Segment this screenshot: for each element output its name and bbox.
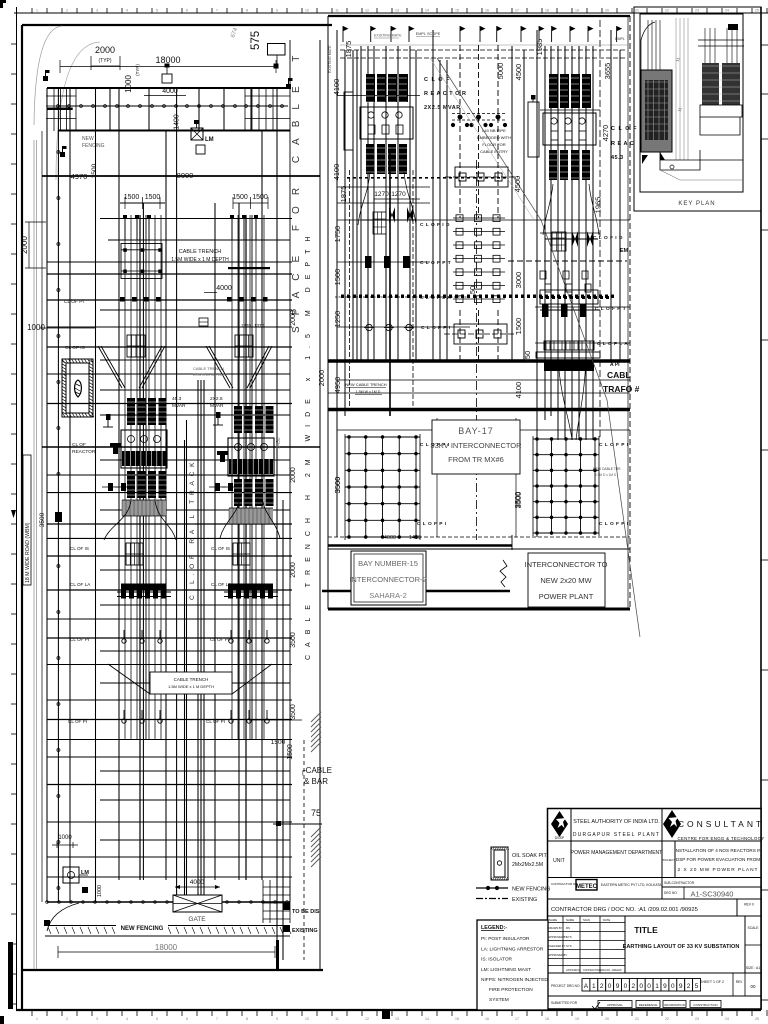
svg-text:3500: 3500 bbox=[333, 477, 342, 494]
svg-text:A: A bbox=[584, 983, 589, 990]
svg-text:1370: 1370 bbox=[241, 323, 252, 328]
svg-text:45.3: 45.3 bbox=[611, 155, 624, 161]
svg-text:APPROVAL: APPROVAL bbox=[607, 1003, 623, 1007]
svg-text:1500: 1500 bbox=[124, 194, 140, 201]
svg-text:21: 21 bbox=[635, 9, 639, 13]
svg-text:9: 9 bbox=[276, 9, 278, 13]
svg-text:BAY-17: BAY-17 bbox=[458, 426, 494, 436]
svg-text:CL OF IS: CL OF IS bbox=[70, 546, 89, 551]
svg-text:0: 0 bbox=[639, 983, 643, 990]
svg-text:IS: ISOLATOR: IS: ISOLATOR bbox=[481, 957, 513, 963]
svg-text:R E A C: R E A C bbox=[611, 141, 634, 147]
svg-text:3: 3 bbox=[96, 1017, 98, 1021]
svg-text:1: 1 bbox=[36, 1017, 38, 1021]
svg-text:FIRE PROTECTION: FIRE PROTECTION bbox=[489, 987, 533, 993]
svg-text:C L O F P I: C L O F P I bbox=[599, 442, 629, 448]
svg-text:1.5M D x 1M D: 1.5M D x 1M D bbox=[595, 473, 617, 477]
svg-text:CL OF PI: CL OF PI bbox=[210, 637, 229, 642]
svg-text:1: 1 bbox=[592, 983, 596, 990]
svg-text:8000: 8000 bbox=[177, 171, 194, 180]
svg-text:CL OF LA: CL OF LA bbox=[211, 582, 232, 587]
svg-text:10: 10 bbox=[305, 9, 309, 13]
svg-text:EXISTING: EXISTING bbox=[292, 928, 318, 934]
svg-text:7: 7 bbox=[216, 9, 218, 13]
svg-text:13: 13 bbox=[395, 9, 399, 13]
svg-text:75: 75 bbox=[311, 808, 321, 818]
svg-text:8: 8 bbox=[246, 1017, 248, 1021]
svg-text:EXISTING: EXISTING bbox=[512, 897, 537, 903]
svg-text:FENCING: FENCING bbox=[82, 143, 105, 149]
svg-text:CONTRACTOR DRG NO...AREA/W: CONTRACTOR DRG NO...AREA/W bbox=[583, 969, 622, 972]
svg-text:SYS: SYS bbox=[566, 944, 572, 948]
svg-text:NEW FENCING: NEW FENCING bbox=[121, 926, 164, 932]
svg-text:CONTRACTOR NO: CONTRACTOR NO bbox=[551, 882, 578, 886]
svg-text:4100: 4100 bbox=[332, 164, 341, 181]
svg-text:BAY NUMBER-15: BAY NUMBER-15 bbox=[358, 559, 418, 568]
svg-text:6: 6 bbox=[186, 1017, 188, 1021]
svg-text:1875: 1875 bbox=[339, 186, 348, 203]
svg-text:25: 25 bbox=[755, 1017, 759, 1021]
svg-text:750: 750 bbox=[523, 351, 532, 364]
svg-text:1.5M W x 1M D: 1.5M W x 1M D bbox=[356, 390, 381, 394]
svg-text:4: 4 bbox=[126, 9, 128, 13]
svg-text:14: 14 bbox=[425, 9, 429, 13]
svg-text:EM: EM bbox=[620, 248, 629, 254]
svg-text:18 M WIDE ROAD (WBM): 18 M WIDE ROAD (WBM) bbox=[25, 522, 31, 583]
svg-text:1500: 1500 bbox=[252, 194, 268, 201]
svg-text:20: 20 bbox=[605, 9, 609, 13]
svg-text:8: 8 bbox=[246, 9, 248, 13]
svg-text:C L O F P I: C L O F P I bbox=[421, 325, 451, 331]
svg-text:LM: LM bbox=[205, 137, 214, 143]
svg-text:4000: 4000 bbox=[216, 285, 232, 292]
svg-text:3655: 3655 bbox=[603, 63, 612, 80]
svg-text:NAME: NAME bbox=[549, 918, 557, 922]
svg-text:C L O F P T: C L O F P T bbox=[420, 260, 451, 266]
svg-text:4: 4 bbox=[126, 1017, 128, 1021]
svg-text:3: 3 bbox=[96, 9, 98, 13]
svg-text:C L O F P I: C L O F P I bbox=[599, 521, 629, 527]
svg-text:DURGAPUR STEEL PLANT: DURGAPUR STEEL PLANT bbox=[573, 832, 660, 838]
svg-text:GATE: GATE bbox=[188, 916, 206, 923]
svg-text:REV 0: REV 0 bbox=[744, 903, 754, 907]
svg-text:2000: 2000 bbox=[95, 45, 115, 55]
svg-text:9: 9 bbox=[616, 983, 620, 990]
svg-text:REFERENCE: REFERENCE bbox=[639, 1003, 658, 1007]
svg-text:STEEL AUTHORITY OF INDIA LTD.: STEEL AUTHORITY OF INDIA LTD. bbox=[573, 819, 659, 825]
svg-text:NEW FENCING: NEW FENCING bbox=[512, 887, 550, 893]
svg-text:(TYP): (TYP) bbox=[98, 58, 111, 64]
svg-text:L40 NB PIPE: L40 NB PIPE bbox=[482, 128, 506, 133]
svg-text:2Mx2Mx2.5M: 2Mx2Mx2.5M bbox=[512, 862, 543, 868]
svg-text:18: 18 bbox=[545, 1017, 549, 1021]
svg-text:MVAR: MVAR bbox=[210, 403, 224, 409]
svg-text:1: 1 bbox=[655, 983, 659, 990]
svg-text:C L O F P I: C L O F P I bbox=[417, 521, 447, 527]
svg-text:16: 16 bbox=[485, 9, 489, 13]
svg-text:2X2.5: 2X2.5 bbox=[210, 396, 223, 402]
svg-text:10: 10 bbox=[305, 1017, 309, 1021]
svg-text:1000: 1000 bbox=[27, 323, 45, 332]
svg-text:EMPL: EMPL bbox=[615, 37, 625, 41]
svg-text:KEY PLAN: KEY PLAN bbox=[678, 201, 715, 207]
svg-text:14: 14 bbox=[425, 1017, 429, 1021]
svg-text:SYS: SYS bbox=[566, 935, 572, 939]
svg-text:9: 9 bbox=[663, 983, 667, 990]
svg-text:1965: 1965 bbox=[594, 197, 603, 214]
svg-text:1000: 1000 bbox=[124, 75, 133, 93]
svg-text:METEC: METEC bbox=[576, 884, 598, 890]
svg-text:PROJECT: PROJECT bbox=[661, 858, 675, 862]
svg-text:1875: 1875 bbox=[344, 41, 353, 58]
svg-text:19: 19 bbox=[575, 1017, 579, 1021]
svg-text:LM: LM bbox=[81, 870, 89, 876]
svg-text:1500: 1500 bbox=[514, 318, 523, 335]
svg-text:18: 18 bbox=[545, 9, 549, 13]
svg-text:50: 50 bbox=[468, 286, 477, 294]
svg-text:TITLE: TITLE bbox=[634, 925, 658, 935]
svg-text:PI: POST INSULATOR: PI: POST INSULATOR bbox=[481, 936, 530, 942]
svg-text:DRAWN BY: DRAWN BY bbox=[549, 926, 563, 930]
svg-text:5000: 5000 bbox=[496, 63, 505, 80]
svg-text:3500: 3500 bbox=[290, 704, 297, 720]
svg-text:CL OF PI: CL OF PI bbox=[64, 299, 84, 305]
svg-text:C L O F P T: C L O F P T bbox=[595, 306, 626, 312]
svg-text:2000: 2000 bbox=[290, 310, 297, 326]
svg-text:EMPL SCOPE: EMPL SCOPE bbox=[416, 32, 441, 36]
svg-text:SUB-CONTRACTOR: SUB-CONTRACTOR bbox=[664, 881, 695, 885]
svg-text:CL OF IS: CL OF IS bbox=[211, 546, 230, 551]
svg-text:0: 0 bbox=[647, 983, 651, 990]
svg-text:MVAR: MVAR bbox=[172, 403, 186, 409]
svg-text:SIZE : A1: SIZE : A1 bbox=[746, 966, 760, 970]
svg-text:4000: 4000 bbox=[162, 88, 178, 95]
svg-text:1250: 1250 bbox=[333, 311, 342, 328]
svg-text:UNIT: UNIT bbox=[553, 858, 565, 864]
svg-text:CABLE TRENCH: CABLE TRENCH bbox=[179, 249, 221, 255]
svg-text:CONSTRUCTION: CONSTRUCTION bbox=[693, 1003, 717, 1007]
svg-text:EXISTING 300 WIDE: EXISTING 300 WIDE bbox=[193, 373, 228, 377]
svg-text:6: 6 bbox=[186, 9, 188, 13]
svg-text:EASTERN METEC PVT LTD, KOLKATA: EASTERN METEC PVT LTD, KOLKATA bbox=[601, 883, 662, 887]
svg-text:POWER MANAGEMENT DEPARTMENT: POWER MANAGEMENT DEPARTMENT bbox=[571, 850, 662, 856]
svg-text:4500: 4500 bbox=[513, 176, 522, 193]
svg-text:0: 0 bbox=[608, 983, 612, 990]
svg-text:NEW CABLE TRENCH: NEW CABLE TRENCH bbox=[345, 382, 386, 387]
svg-text:1500: 1500 bbox=[232, 194, 248, 201]
svg-text:POWER PLANT: POWER PLANT bbox=[539, 592, 594, 601]
svg-text:NAME: NAME bbox=[566, 918, 574, 922]
svg-text:20: 20 bbox=[605, 1017, 609, 1021]
svg-text:5: 5 bbox=[156, 1017, 158, 1021]
svg-text:2: 2 bbox=[600, 983, 604, 990]
svg-text:4000: 4000 bbox=[190, 879, 205, 886]
svg-text:4270: 4270 bbox=[601, 125, 610, 142]
svg-text:23: 23 bbox=[695, 9, 699, 13]
svg-text:2: 2 bbox=[687, 983, 691, 990]
svg-text:TO BE DIS: TO BE DIS bbox=[292, 909, 320, 915]
svg-text:4500: 4500 bbox=[514, 64, 523, 81]
svg-text:A PI: A PI bbox=[610, 362, 620, 368]
svg-text:EXISTING MATE: EXISTING MATE bbox=[328, 45, 332, 73]
svg-text:19: 19 bbox=[575, 9, 579, 13]
svg-text:EXISTING MATE: EXISTING MATE bbox=[374, 34, 402, 38]
svg-text:REACTOR: REACTOR bbox=[72, 449, 96, 455]
svg-text:9: 9 bbox=[679, 983, 683, 990]
svg-text:1500: 1500 bbox=[145, 194, 161, 201]
svg-text:SIGN: SIGN bbox=[583, 918, 590, 922]
svg-text:LM: LIGHTNING MAST: LM: LIGHTNING MAST bbox=[481, 967, 531, 973]
svg-text:1500: 1500 bbox=[333, 269, 342, 286]
svg-text:2000: 2000 bbox=[20, 236, 29, 254]
svg-text:25: 25 bbox=[755, 9, 759, 13]
svg-text:NIFPS: NITROGEN INJECTED: NIFPS: NITROGEN INJECTED bbox=[481, 977, 548, 983]
svg-text:DSP FOR POWER EVACUATION FROM: DSP FOR POWER EVACUATION FROM bbox=[676, 857, 760, 862]
svg-text:PROJECT DRG NO.: PROJECT DRG NO. bbox=[551, 984, 580, 988]
svg-text:C L O F P I: C L O F P I bbox=[420, 442, 450, 448]
svg-text:A1-SC30940: A1-SC30940 bbox=[691, 890, 734, 899]
svg-text:CABL: CABL bbox=[607, 370, 631, 380]
svg-text:2: 2 bbox=[66, 1017, 68, 1021]
svg-text:OIL SOAK PIT: OIL SOAK PIT bbox=[512, 853, 548, 859]
svg-text:INTERCONNECTOR TO: INTERCONNECTOR TO bbox=[525, 560, 608, 569]
svg-text:1270: 1270 bbox=[374, 191, 389, 198]
svg-text:NEW: NEW bbox=[82, 136, 94, 142]
svg-text:2000: 2000 bbox=[290, 467, 297, 483]
svg-text:2000: 2000 bbox=[290, 562, 297, 578]
svg-text:CL OF LA: CL OF LA bbox=[70, 582, 91, 587]
svg-text:1500: 1500 bbox=[271, 739, 286, 746]
svg-text:FROM TR MX#6: FROM TR MX#6 bbox=[448, 455, 504, 464]
svg-text:ANT/2409 M: ANT/2409 M bbox=[566, 968, 581, 972]
svg-text:11: 11 bbox=[335, 9, 339, 13]
svg-text:CABLE TRENCH H 2M WIDE x 1.5 M: CABLE TRENCH H 2M WIDE x 1.5 M DEPTH bbox=[305, 229, 312, 660]
svg-text:DSSP: DSSP bbox=[555, 836, 565, 840]
svg-text:12: 12 bbox=[365, 1017, 369, 1021]
svg-text:C L O F I D: C L O F I D bbox=[593, 235, 623, 241]
svg-text:DATE: DATE bbox=[603, 918, 610, 922]
svg-text:3500: 3500 bbox=[513, 492, 522, 509]
svg-text:(TYP): (TYP) bbox=[135, 64, 140, 76]
svg-text:CL OF PI: CL OF PI bbox=[206, 719, 225, 724]
svg-text:15: 15 bbox=[455, 1017, 459, 1021]
svg-text:CONSULTANT: CONSULTANT bbox=[678, 819, 764, 829]
svg-text:3500: 3500 bbox=[91, 163, 98, 178]
svg-text:CL OF: CL OF bbox=[72, 442, 86, 448]
svg-text:RS: RS bbox=[566, 926, 570, 930]
svg-text:EARTHING LAYOUT OF 33 KV SUBST: EARTHING LAYOUT OF 33 KV SUBSTATION bbox=[623, 944, 740, 950]
svg-text:CONTRACTOR DRG / DOC NO. :A1 /: CONTRACTOR DRG / DOC NO. :A1 /209.02.001… bbox=[551, 907, 698, 913]
svg-text:12: 12 bbox=[365, 9, 369, 13]
svg-text:4000: 4000 bbox=[384, 535, 396, 541]
svg-text:C L O F: C L O F bbox=[611, 126, 637, 132]
svg-text:INFORMATION: INFORMATION bbox=[664, 1003, 685, 1007]
svg-text:2: 2 bbox=[66, 9, 68, 13]
svg-text:┌CABLE: ┌CABLE bbox=[300, 766, 332, 776]
svg-text:TRAFO #: TRAFO # bbox=[603, 384, 640, 394]
svg-text:1985: 1985 bbox=[535, 39, 544, 56]
svg-text:CABLE TRENCH: CABLE TRENCH bbox=[193, 366, 224, 371]
svg-text:1270: 1270 bbox=[391, 191, 406, 198]
svg-text:SHEET 1 OF 2: SHEET 1 OF 2 bbox=[700, 980, 724, 984]
svg-text:4100: 4100 bbox=[514, 382, 523, 399]
svg-text:& BAR: & BAR bbox=[304, 777, 328, 786]
svg-text:3000: 3000 bbox=[514, 272, 523, 289]
svg-text:45.3: 45.3 bbox=[172, 396, 182, 402]
svg-text:CL OF PI: CL OF PI bbox=[70, 637, 89, 642]
svg-text:5: 5 bbox=[695, 983, 699, 990]
svg-text:24: 24 bbox=[725, 9, 729, 13]
svg-text:575: 575 bbox=[250, 31, 262, 50]
svg-text:2 X 20 MW POWER PLANT: 2 X 20 MW POWER PLANT bbox=[678, 867, 759, 873]
svg-text:5: 5 bbox=[156, 9, 158, 13]
svg-text:APPROVED BY: APPROVED BY bbox=[549, 953, 568, 957]
svg-text:1400: 1400 bbox=[174, 114, 181, 130]
svg-text:4100: 4100 bbox=[332, 79, 341, 96]
svg-text:17: 17 bbox=[515, 9, 519, 13]
svg-text:7: 7 bbox=[216, 1017, 218, 1021]
svg-text:15: 15 bbox=[455, 9, 459, 13]
svg-text:0: 0 bbox=[624, 983, 628, 990]
svg-text:18000: 18000 bbox=[155, 55, 180, 65]
svg-text:1.5M WIDE x 1 M DEPTH: 1.5M WIDE x 1 M DEPTH bbox=[168, 684, 214, 689]
svg-text:1000: 1000 bbox=[97, 885, 103, 897]
svg-text:SYSTEM: SYSTEM bbox=[489, 997, 509, 1003]
svg-text:CENTRE FOR ENGG & TECHNOLOGY: CENTRE FOR ENGG & TECHNOLOGY bbox=[677, 836, 764, 841]
svg-text:NEW 2x20 MW: NEW 2x20 MW bbox=[540, 576, 592, 585]
svg-text:1: 1 bbox=[36, 9, 38, 13]
svg-text:SUBMITTED FOR: SUBMITTED FOR bbox=[551, 1001, 578, 1005]
svg-text:CABLE ENTRY: CABLE ENTRY bbox=[480, 149, 508, 154]
svg-text:1000: 1000 bbox=[58, 835, 72, 841]
svg-text:CL OF PI: CL OF PI bbox=[68, 719, 87, 724]
svg-text:NEW CABLE TRE: NEW CABLE TRE bbox=[593, 467, 621, 471]
svg-text:C L O F L A: C L O F L A bbox=[420, 295, 451, 301]
svg-text:22: 22 bbox=[665, 9, 669, 13]
svg-text:SPACE FOR CABLE T: SPACE FOR CABLE T bbox=[291, 45, 302, 333]
svg-text:C L O F L A: C L O F L A bbox=[597, 341, 628, 347]
svg-text:2: 2 bbox=[631, 983, 635, 990]
svg-text:4950: 4950 bbox=[333, 377, 342, 394]
svg-text:1750: 1750 bbox=[333, 226, 342, 243]
svg-text:11: 11 bbox=[335, 1017, 339, 1021]
svg-text:18000: 18000 bbox=[155, 943, 178, 952]
svg-text:1500: 1500 bbox=[287, 744, 294, 760]
svg-text:C.L.OF RAIL TRACK: C.L.OF RAIL TRACK bbox=[189, 458, 196, 600]
svg-text:INTERCONNECTOR-2: INTERCONNECTOR-2 bbox=[349, 575, 426, 584]
svg-text:0: 0 bbox=[671, 983, 675, 990]
svg-text:3450: 3450 bbox=[276, 437, 282, 448]
svg-text:CABLE TRENCH: CABLE TRENCH bbox=[174, 677, 209, 682]
svg-text:16: 16 bbox=[485, 1017, 489, 1021]
svg-text:17: 17 bbox=[515, 1017, 519, 1021]
svg-text:4970: 4970 bbox=[71, 172, 88, 181]
svg-text:1.5M WIDE x 1 M DEPTH: 1.5M WIDE x 1 M DEPTH bbox=[171, 257, 229, 263]
svg-text:LA: LIGHTNING ARRESTOR: LA: LIGHTNING ARRESTOR bbox=[481, 946, 544, 952]
svg-text:C L O F: C L O F bbox=[424, 77, 450, 83]
svg-text:CHECKED BY: CHECKED BY bbox=[549, 944, 566, 948]
svg-text:APPROVED BY: APPROVED BY bbox=[549, 935, 568, 939]
svg-text:3500: 3500 bbox=[290, 632, 297, 648]
svg-text:SAHARA-2: SAHARA-2 bbox=[369, 591, 407, 600]
svg-text:13: 13 bbox=[395, 1017, 399, 1021]
svg-text:CL OF IS: CL OF IS bbox=[65, 345, 85, 351]
svg-text:2000: 2000 bbox=[317, 370, 326, 387]
svg-text:DRG NO: DRG NO bbox=[664, 891, 677, 895]
svg-text:REV: REV bbox=[736, 980, 743, 984]
svg-text:23: 23 bbox=[695, 1017, 699, 1021]
svg-text:1400: 1400 bbox=[409, 535, 421, 541]
svg-text:21: 21 bbox=[635, 1017, 639, 1021]
svg-text:LEGEND:-: LEGEND:- bbox=[481, 925, 507, 931]
svg-text:22: 22 bbox=[665, 1017, 669, 1021]
svg-text:24: 24 bbox=[725, 1017, 729, 1021]
svg-text:00: 00 bbox=[750, 984, 756, 989]
svg-text:1370: 1370 bbox=[254, 323, 265, 328]
svg-text:INSTALLATION OF 4 NOS REACTORS: INSTALLATION OF 4 NOS REACTORS IN bbox=[674, 848, 761, 853]
svg-text:SCALE: SCALE bbox=[747, 926, 759, 930]
svg-text:9: 9 bbox=[276, 1017, 278, 1021]
svg-text:2X2.5 MVAR: 2X2.5 MVAR bbox=[424, 105, 461, 111]
svg-text:C L O F I D: C L O F I D bbox=[420, 222, 450, 228]
svg-text:3500: 3500 bbox=[39, 512, 46, 527]
